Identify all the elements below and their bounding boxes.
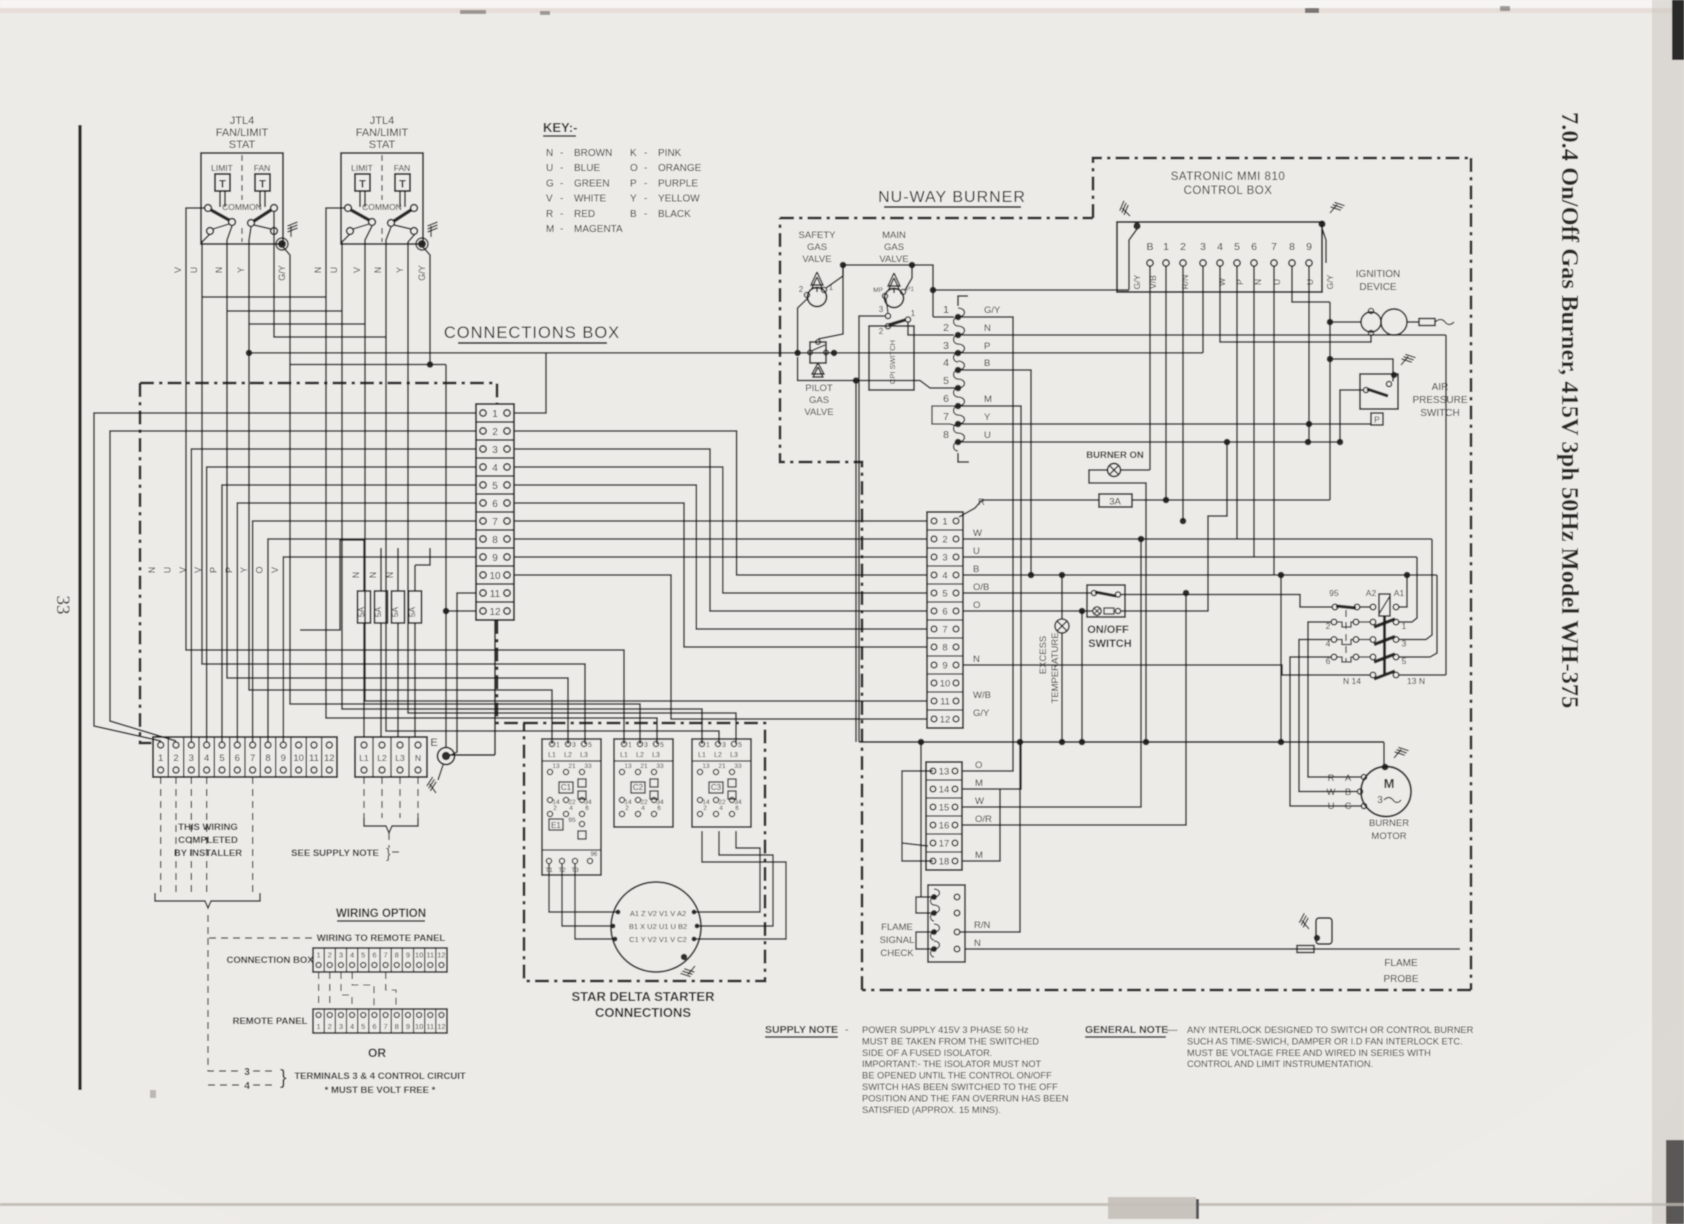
svg-text:BURNER: BURNER: [1369, 818, 1409, 829]
svg-text:L1: L1: [548, 752, 556, 759]
svg-text:N: N: [373, 267, 383, 274]
svg-text:BY INSTALLER: BY INSTALLER: [174, 848, 242, 859]
svg-text:5A: 5A: [390, 606, 400, 617]
svg-text:M: M: [975, 778, 983, 789]
svg-text:21: 21: [568, 763, 576, 770]
wire N line from connector 2: [961, 334, 1446, 336]
connector rows 6-7 bracket: [932, 406, 955, 424]
connections box enclosure border: [140, 383, 497, 404]
svg-text:1: 1: [158, 753, 163, 764]
svg-text:U: U: [1305, 279, 1315, 285]
svg-text:7: 7: [492, 517, 498, 528]
dashed links connection box to remote panel: [318, 972, 320, 1009]
brace under installer terminals: [155, 893, 260, 908]
pilot bus extension into stat area: [249, 352, 546, 354]
svg-text:O: O: [254, 566, 264, 573]
svg-text:B1 X U2 U1 U B2: B1 X U2 U1 U B2: [629, 922, 687, 931]
earth G/Y bus from stats to E terminal: [290, 364, 446, 366]
svg-text:U: U: [984, 430, 991, 441]
svg-text:11: 11: [490, 589, 501, 600]
wires CB rows 3-9 to installer terminals 3-9: [191, 449, 476, 742]
svg-text:POWER SUPPLY 415V 3 PHASE 50 H: POWER SUPPLY 415V 3 PHASE 50 Hz: [862, 1025, 1029, 1035]
svg-text:BROWN: BROWN: [574, 148, 612, 159]
svg-text:3: 3: [492, 445, 498, 456]
svg-text:SUCH AS TIME-SWICH, DAMPER OR: SUCH AS TIME-SWICH, DAMPER OR I.D FAN IN…: [1187, 1036, 1463, 1046]
svg-text:YELLOW: YELLOW: [658, 194, 700, 205]
svg-text:12: 12: [940, 715, 951, 726]
svg-text:COMPLETED: COMPLETED: [178, 835, 238, 846]
terminals 3 and 4 control circuit option: [208, 938, 242, 1071]
svg-text:2: 2: [553, 805, 557, 812]
wire W line strip2 row2 to contact 3: [963, 538, 1432, 540]
air pressure switch: [1360, 374, 1398, 409]
svg-text:U: U: [973, 546, 980, 557]
svg-text:}: }: [386, 845, 391, 861]
svg-text:IGNITION: IGNITION: [1356, 269, 1400, 280]
remote panel mini terminal strip 1-12: [313, 1009, 447, 1033]
svg-text:3: 3: [572, 742, 576, 749]
svg-text:5: 5: [361, 1022, 365, 1031]
svg-text:7: 7: [250, 753, 255, 764]
wire safety valve branch to burner connector 5: [798, 357, 955, 388]
svg-text:2: 2: [1180, 241, 1186, 253]
wire lamp right to pin B: [1121, 469, 1151, 471]
wire ignition return to pin 4: [1220, 266, 1371, 342]
terminal strip T1-T12 installer side: [153, 737, 337, 777]
svg-text:PRESSURE: PRESSURE: [1412, 395, 1467, 406]
wire CB row3 to burner terminal 6: [514, 449, 927, 611]
wire G/Y from control box earth to connector row 1: [933, 289, 1129, 291]
svg-text:8: 8: [492, 535, 498, 546]
contact outputs to motor: [1308, 622, 1362, 777]
motor earth: [1382, 764, 1389, 771]
pin 2 riser: [1182, 266, 1184, 521]
svg-text:N: N: [214, 267, 224, 274]
svg-text:6: 6: [372, 951, 376, 960]
svg-text:9: 9: [406, 1022, 410, 1031]
svg-text:5: 5: [361, 951, 365, 960]
wires C1 to motor terminals: [549, 864, 618, 912]
svg-text:4: 4: [350, 951, 354, 960]
svg-text:95: 95: [568, 817, 576, 824]
svg-text:7: 7: [384, 951, 388, 960]
svg-text:11: 11: [309, 753, 319, 764]
svg-text:SIGNAL: SIGNAL: [880, 935, 915, 946]
svg-text:N: N: [974, 938, 981, 949]
svg-text:B: B: [1345, 787, 1351, 798]
control box earth lug right: [1318, 220, 1325, 227]
wire CB row4 to burner terminal 5: [514, 467, 927, 593]
wire air switch output to U line: [1340, 390, 1363, 442]
svg-text:7: 7: [943, 411, 949, 423]
wire pin 8 to ignition device: [1292, 266, 1330, 302]
svg-text:5: 5: [492, 481, 498, 492]
svg-text:5: 5: [738, 742, 742, 749]
svg-text:12: 12: [437, 1022, 445, 1031]
svg-text:OR: OR: [368, 1046, 386, 1060]
wire Y from stat2 to contactor C3 L3: [408, 234, 736, 744]
svg-text:-: -: [560, 194, 563, 205]
svg-text:R/N: R/N: [1180, 275, 1190, 290]
svg-text:ANY INTERLOCK DESIGNED TO SWIT: ANY INTERLOCK DESIGNED TO SWITCH OR CONT…: [1187, 1025, 1474, 1035]
wire CB row6 to burner terminal 8: [514, 503, 927, 647]
svg-text:FLAME: FLAME: [881, 922, 913, 933]
svg-text:B: B: [630, 209, 637, 220]
svg-text:15: 15: [939, 803, 950, 814]
svg-text:3: 3: [722, 742, 726, 749]
wires motor to C3 terminals: [694, 831, 760, 912]
svg-text:L3: L3: [580, 752, 588, 759]
svg-text:2: 2: [879, 327, 884, 336]
svg-text:GAS: GAS: [884, 242, 904, 253]
wire CB row5 to burner terminal 7: [514, 485, 927, 629]
svg-text:MUST BE TAKEN FROM THE SWITCHE: MUST BE TAKEN FROM THE SWITCHED: [862, 1036, 1039, 1046]
svg-text:V: V: [173, 267, 183, 273]
fuse 3A: [1099, 494, 1132, 507]
svg-text:3: 3: [1200, 241, 1206, 253]
svg-text:EXCESS: EXCESS: [1038, 636, 1049, 675]
wire O line to ON/OFF switch lower contact: [963, 610, 1093, 612]
svg-text:10: 10: [415, 951, 423, 960]
svg-text:O: O: [630, 163, 638, 174]
wire B line strip2 row4 to contact 5: [963, 574, 1437, 576]
wire R line fuse to air pressure switch riser: [982, 499, 1099, 501]
svg-text:MP: MP: [873, 287, 883, 294]
fuse 5A (3): [392, 591, 405, 623]
svg-text:1: 1: [911, 309, 916, 318]
svg-text:G/Y: G/Y: [417, 265, 427, 281]
wire Y line to P sensor: [961, 423, 1371, 425]
svg-text:THIS WIRING: THIS WIRING: [178, 822, 238, 833]
pin 9 riser to U line: [1308, 266, 1310, 442]
svg-text:JTL4: JTL4: [370, 115, 394, 127]
svg-text:SEE SUPPLY NOTE: SEE SUPPLY NOTE: [291, 848, 379, 859]
star delta motor terminal circle: [611, 882, 701, 972]
svg-text:FAN: FAN: [254, 163, 271, 173]
svg-text:6: 6: [492, 499, 498, 510]
svg-text:CONNECTIONS: CONNECTIONS: [595, 1005, 691, 1020]
fuse 5A (4): [409, 591, 422, 623]
svg-text:W: W: [1327, 787, 1336, 798]
svg-text:O: O: [975, 760, 982, 771]
wire safety valve 2 to pilot bus: [798, 298, 808, 353]
svg-text:G/Y: G/Y: [1325, 274, 1335, 289]
CPI switch: [869, 326, 914, 390]
svg-text:3: 3: [942, 553, 947, 564]
svg-text:13: 13: [552, 763, 560, 770]
stat series link wire 2: [227, 310, 342, 312]
svg-text:4: 4: [1217, 241, 1223, 253]
wire air switch feed: [1330, 359, 1393, 382]
svg-text:10: 10: [415, 1022, 423, 1031]
wire O/B line to ON/OFF switch: [963, 592, 1091, 594]
svg-text:M: M: [1384, 776, 1395, 791]
svg-text:-: -: [644, 148, 647, 159]
svg-text:CONNECTION BOX: CONNECTION BOX: [226, 955, 314, 966]
relay auxiliary riser: [1280, 575, 1282, 742]
svg-text:VALVE: VALVE: [879, 254, 908, 265]
svg-text:8: 8: [943, 429, 949, 441]
svg-text:3: 3: [339, 951, 343, 960]
svg-text:SWITCH: SWITCH: [1088, 638, 1131, 650]
svg-text:CONTROL AND LIMIT INSTRUMENTAT: CONTROL AND LIMIT INSTRUMENTATION.: [1187, 1059, 1373, 1069]
flame check feed riser: [920, 742, 922, 897]
svg-text:* MUST BE VOLT FREE *: * MUST BE VOLT FREE *: [325, 1085, 436, 1096]
svg-text:FAN/LIMIT: FAN/LIMIT: [356, 127, 409, 139]
limit switch contacts: [345, 205, 352, 212]
svg-text:2: 2: [625, 805, 629, 812]
motor circle earth: [681, 954, 687, 960]
wire B line to excess stat to earth bus: [1061, 575, 1063, 619]
svg-text:A2: A2: [1366, 588, 1377, 598]
svg-text:E1: E1: [551, 821, 561, 830]
svg-text:3: 3: [189, 753, 194, 764]
svg-text:11: 11: [426, 951, 434, 960]
wire V from stat2 limit common to burner terminal 11 W/B: [365, 226, 927, 701]
control box earth lug left: [1133, 222, 1140, 229]
svg-text:R: R: [546, 209, 553, 220]
svg-text:3: 3: [339, 1022, 343, 1031]
svg-text:PINK: PINK: [658, 148, 682, 159]
svg-text:12: 12: [489, 607, 501, 618]
svg-text:O/R: O/R: [975, 814, 992, 825]
terminal 16 O/R riser: [962, 593, 1186, 825]
svg-text:1: 1: [628, 742, 632, 749]
svg-text:Y: Y: [984, 412, 991, 423]
wire CB row10 to burner terminal 12: [514, 575, 927, 719]
svg-text:—: —: [1167, 1024, 1178, 1036]
svg-text:-: -: [560, 224, 563, 235]
svg-text:13 N: 13 N: [1407, 676, 1425, 686]
svg-text:BE OPENED UNTIL THE CONTROL ON: BE OPENED UNTIL THE CONTROL ON/OFF: [862, 1071, 1052, 1081]
svg-text:G/Y: G/Y: [1132, 274, 1142, 289]
svg-text:N: N: [147, 567, 157, 574]
svg-text:4: 4: [942, 571, 947, 582]
svg-text:4: 4: [569, 805, 573, 812]
svg-text:FAN: FAN: [394, 163, 411, 173]
svg-text:PROBE: PROBE: [1383, 974, 1418, 985]
wire ON/OFF switch lower to U line: [1121, 442, 1227, 611]
svg-text:9: 9: [492, 553, 498, 564]
svg-text:SAFETY: SAFETY: [799, 230, 837, 241]
svg-text:STAT: STAT: [229, 139, 256, 151]
svg-text:P: P: [984, 341, 990, 352]
earth riser from valve area: [855, 381, 857, 743]
svg-text:96: 96: [591, 852, 598, 858]
svg-text:6: 6: [943, 393, 949, 405]
svg-text:1: 1: [1163, 241, 1169, 253]
svg-text:4: 4: [943, 357, 949, 369]
wire CB row1 N to installer terminal 1: [94, 413, 476, 741]
wire G/Y from stat1 earth to contactor C2 L2: [283, 247, 640, 744]
svg-text:95: 95: [1329, 588, 1339, 598]
svg-text:-: -: [560, 148, 563, 159]
svg-text:N: N: [415, 753, 421, 763]
svg-text:10: 10: [940, 679, 951, 690]
svg-text:COMMON: COMMON: [222, 202, 262, 212]
svg-text:W: W: [973, 528, 982, 539]
dashed leads below installer terminals: [160, 777, 162, 893]
svg-text:VALVE: VALVE: [804, 407, 833, 418]
svg-text:U: U: [546, 163, 553, 174]
svg-text:7.0.4 On/Off Gas Burner, 415V: 7.0.4 On/Off Gas Burner, 415V 3ph 50Hz M…: [1556, 112, 1583, 708]
terminal 15 W riser: [962, 539, 1141, 807]
svg-text:3: 3: [244, 1067, 250, 1078]
wire N from stat1 limit common to contactor C1 L2: [227, 226, 568, 744]
svg-text:1: 1: [706, 742, 710, 749]
svg-text:3A: 3A: [1109, 497, 1121, 508]
svg-text:GAS: GAS: [809, 395, 829, 406]
svg-text:L1: L1: [698, 752, 706, 759]
svg-text:U: U: [1328, 801, 1335, 812]
svg-text:L3: L3: [652, 752, 660, 759]
svg-text:PILOT: PILOT: [805, 383, 833, 394]
wire B line to coil A1: [1399, 575, 1407, 607]
svg-text:12: 12: [437, 951, 445, 960]
svg-text:C1 Y V2 V1 V C2: C1 Y V2 V1 V C2: [629, 935, 687, 944]
svg-text:8: 8: [265, 753, 270, 764]
svg-text:5: 5: [943, 375, 949, 387]
svg-text:33: 33: [52, 596, 73, 615]
wire V from stat1 to contactor C2 L1: [186, 208, 624, 744]
dashed riser to remote panel option: [208, 915, 315, 938]
svg-text:CPI SWITCH: CPI SWITCH: [888, 340, 897, 384]
svg-text:MAGENTA: MAGENTA: [574, 224, 623, 235]
svg-text:33: 33: [656, 763, 664, 770]
wire aux 14 to neutral terminal 9: [963, 665, 1370, 675]
svg-text:W: W: [1217, 278, 1227, 286]
star delta starter enclosure: [524, 723, 765, 981]
svg-text:33: 33: [584, 763, 592, 770]
svg-text:LIMIT: LIMIT: [351, 163, 373, 173]
svg-text:1: 1: [943, 304, 949, 316]
svg-text:WIRING TO REMOTE PANEL: WIRING TO REMOTE PANEL: [317, 933, 446, 944]
excess temperature stat symbol: [1055, 619, 1069, 633]
svg-text:6: 6: [657, 805, 661, 812]
svg-text:SUPPLY NOTE: SUPPLY NOTE: [765, 1024, 838, 1036]
svg-text:CHECK: CHECK: [880, 948, 914, 959]
svg-text:FAN/LIMIT: FAN/LIMIT: [216, 127, 269, 139]
svg-text:REMOTE PANEL: REMOTE PANEL: [233, 1016, 308, 1027]
svg-text:C1: C1: [561, 783, 572, 792]
fuse feed wires: [363, 548, 365, 591]
svg-text:10: 10: [293, 753, 304, 764]
svg-text:Y: Y: [236, 267, 246, 273]
svg-text:16: 16: [939, 821, 950, 832]
svg-text:V: V: [352, 267, 362, 273]
svg-text:12: 12: [324, 753, 335, 764]
svg-text:G/Y: G/Y: [973, 708, 990, 719]
svg-text:9: 9: [1306, 241, 1312, 253]
burner terminal strip B1-B12: [927, 512, 963, 728]
svg-text:E: E: [430, 737, 437, 749]
svg-text:C: C: [1345, 801, 1352, 812]
svg-text:1: 1: [556, 742, 560, 749]
svg-text:5: 5: [1234, 241, 1240, 253]
svg-text:-: -: [644, 194, 647, 205]
svg-text:U: U: [162, 567, 172, 574]
svg-text:13: 13: [702, 763, 710, 770]
svg-text:U: U: [189, 267, 199, 274]
ignition feed riser: [1329, 302, 1331, 500]
svg-text:1: 1: [316, 951, 320, 960]
fuse 5A (2): [375, 591, 388, 623]
svg-text:}: }: [280, 1067, 287, 1089]
svg-text:1: 1: [316, 1022, 320, 1031]
svg-text:Y: Y: [630, 194, 637, 205]
svg-text:5: 5: [219, 753, 224, 764]
wire CB row7 to burner terminal 1: [514, 520, 927, 522]
wire ON/OFF switch to overload 95: [1121, 595, 1332, 608]
pin B riser: [1149, 266, 1151, 470]
pin 1 riser: [1165, 266, 1167, 500]
svg-text:5: 5: [660, 742, 664, 749]
svg-text:13: 13: [624, 763, 632, 770]
svg-text:V: V: [546, 194, 553, 205]
svg-text:VALVE: VALVE: [802, 254, 831, 265]
wire CB row12 G/Y to earth riser: [446, 610, 476, 612]
svg-text:4: 4: [641, 805, 645, 812]
svg-text:TEMPERATURE: TEMPERATURE: [1050, 632, 1061, 703]
wire U from stat1 to contactor C1 L3: [202, 234, 585, 744]
svg-text:6: 6: [942, 607, 947, 618]
svg-text:7: 7: [942, 625, 947, 636]
earth E wire to strip row 12: [449, 754, 495, 756]
svg-text:21: 21: [718, 763, 726, 770]
mechanical link dashed: [1345, 610, 1347, 662]
svg-text:2: 2: [328, 1022, 332, 1031]
svg-text:N: N: [984, 323, 991, 334]
wire N from stat2 to contactor C2 L3: [326, 208, 657, 744]
svg-text:33: 33: [734, 763, 742, 770]
JTL4 stat body: [341, 153, 423, 244]
svg-text:17: 17: [939, 839, 950, 850]
contactor C3 star delta: [692, 739, 751, 827]
wire R/N from flame check: [960, 742, 1020, 932]
svg-text:R/N: R/N: [974, 920, 991, 931]
valve supply bus wire: [826, 265, 843, 288]
wire CB row9 to burner terminal 3: [514, 556, 927, 558]
svg-text:-: -: [560, 209, 563, 220]
svg-text:-: -: [845, 1024, 849, 1036]
burner motor M 3~: [1361, 767, 1411, 817]
svg-text:CONTROL BOX: CONTROL BOX: [1184, 185, 1273, 197]
svg-text:RED: RED: [574, 209, 595, 220]
wire N from stat2 fan common to contactor C3 L2: [386, 227, 719, 744]
svg-text:WHITE: WHITE: [574, 194, 607, 205]
svg-text:N: N: [313, 267, 323, 274]
wire G/Y from stat2 earth: [423, 247, 430, 365]
svg-text:13: 13: [939, 767, 950, 778]
fan switch contacts: [411, 205, 418, 212]
svg-text:8: 8: [942, 643, 947, 654]
svg-text:A1 Z V2 V1 V A2: A1 Z V2 V1 V A2: [630, 909, 686, 918]
burner terminal strip B13-B18: [926, 762, 962, 870]
flame probe: [1316, 918, 1332, 944]
svg-text:N 14: N 14: [1343, 676, 1361, 686]
terminal strip CB1-CB12 connections box: [476, 404, 514, 620]
svg-text:5A: 5A: [373, 606, 383, 617]
svg-text:GREEN: GREEN: [574, 178, 610, 189]
earth bus wire to motor earth: [859, 741, 1384, 743]
svg-text:1: 1: [942, 517, 947, 528]
svg-text:2: 2: [703, 805, 707, 812]
control box body: [1117, 222, 1322, 292]
svg-text:2: 2: [328, 951, 332, 960]
ignition device transformer: [1361, 312, 1381, 332]
main gas valve: [885, 289, 904, 308]
svg-text:8: 8: [395, 1022, 399, 1031]
